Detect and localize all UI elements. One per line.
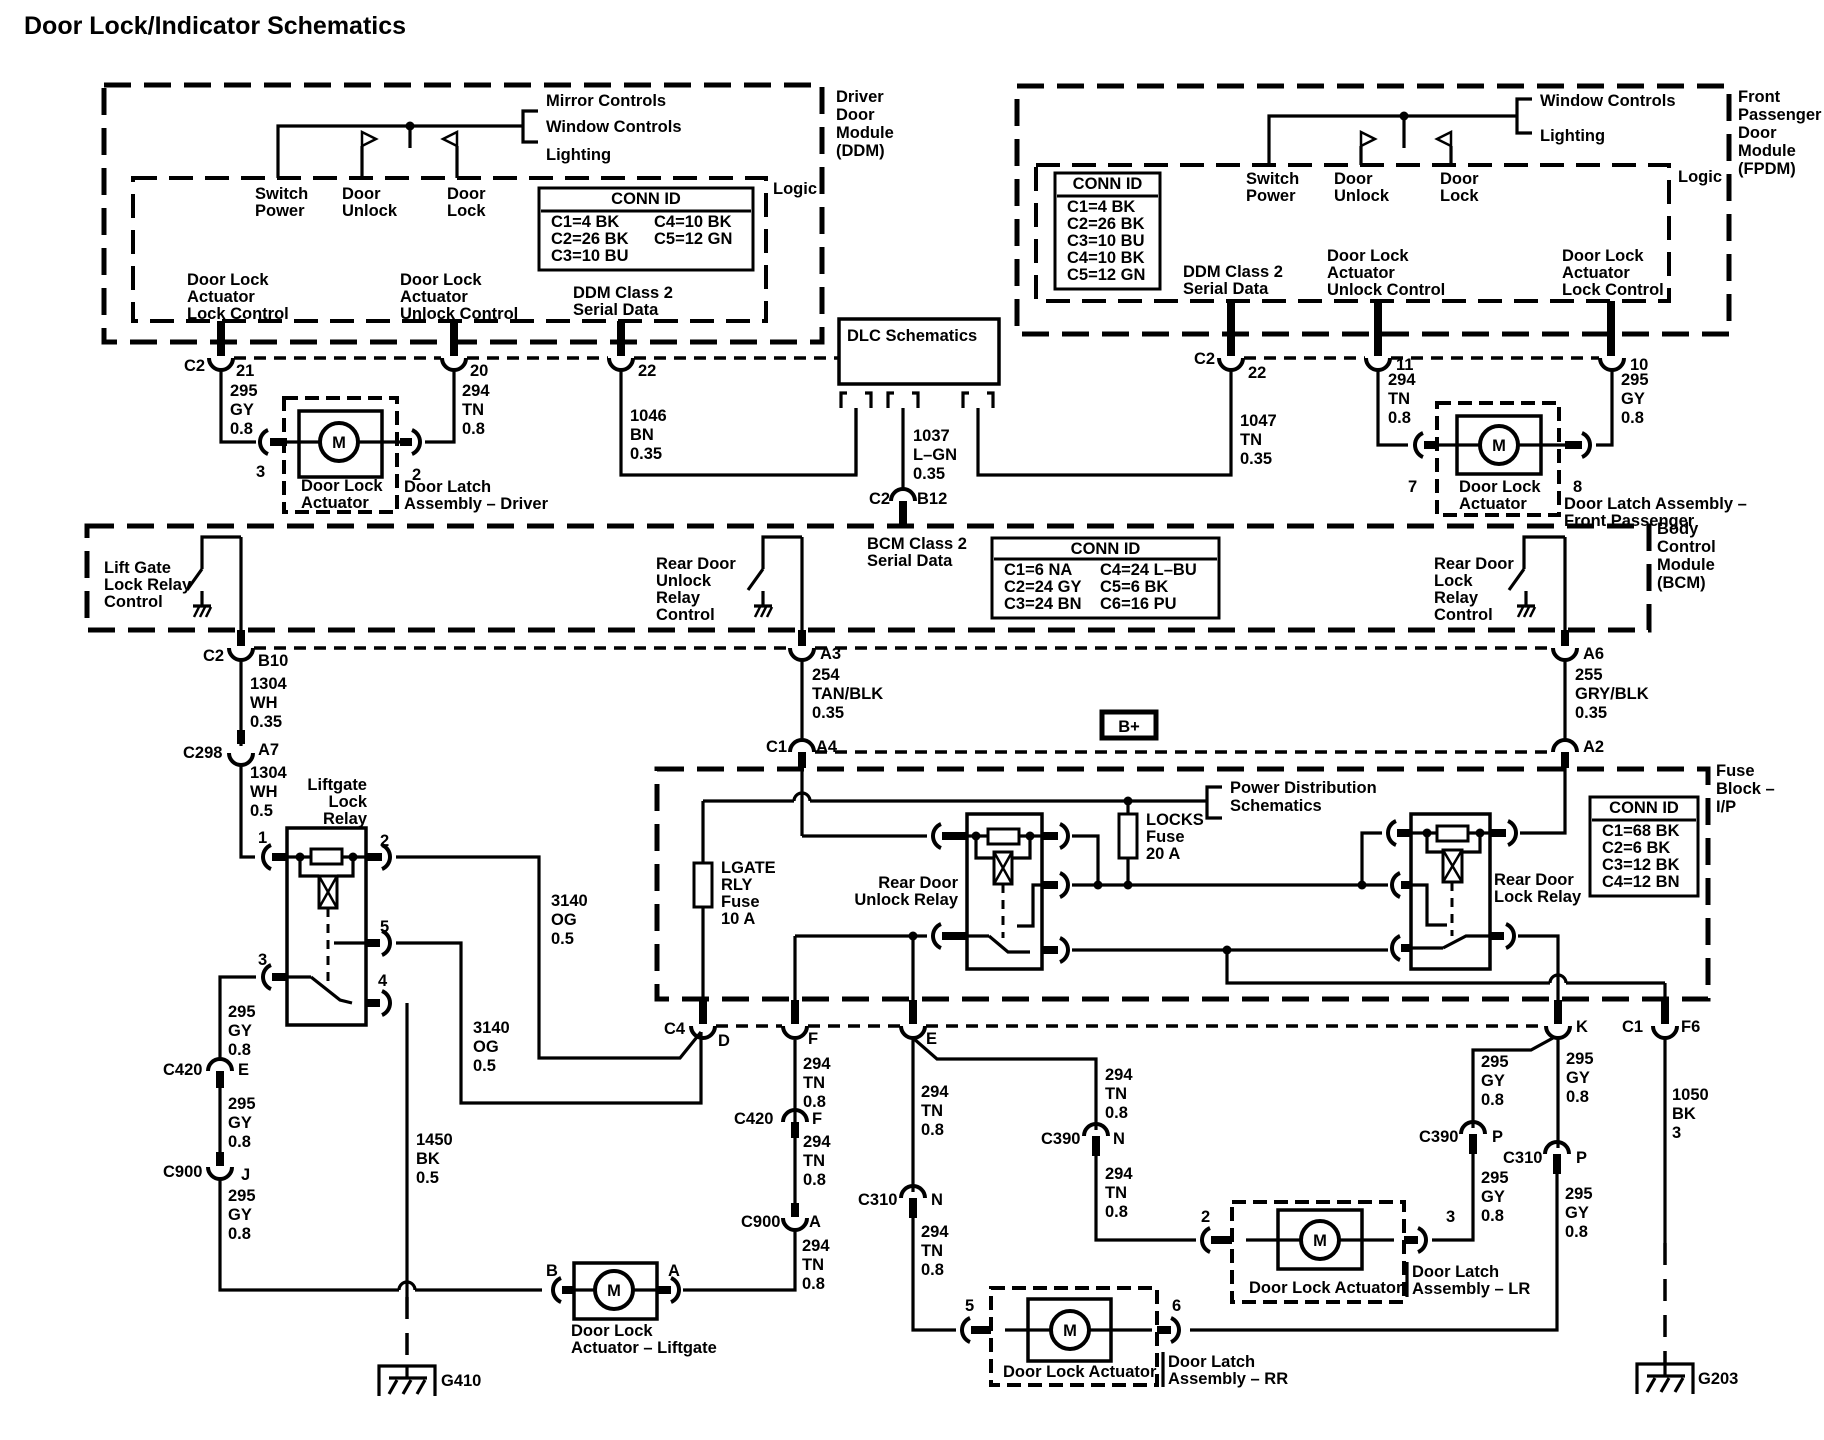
pin 5 connector (RR actuator) [962,1297,991,1342]
svg-text:Door: Door [1738,124,1777,142]
svg-text:E: E [238,1061,249,1079]
svg-text:M: M [332,434,346,452]
connector C4 D [664,1000,730,1050]
svg-text:Serial Data: Serial Data [867,552,953,570]
pin 21 connector arc [209,358,254,380]
wire 294 TN 0.8 from C310 N to RR actuator pin 5 [913,1218,956,1330]
svg-text:294: 294 [803,1133,831,1151]
svg-text:295: 295 [1481,1169,1509,1187]
svg-text:0.8: 0.8 [802,1275,825,1293]
pin B connector (liftgate actuator) [546,1262,574,1302]
wire 1450 BK 0.5 from K1 pin 4 to ground [407,1003,453,1366]
svg-text:Power: Power [255,202,305,220]
svg-text:Lock Relay: Lock Relay [104,576,192,594]
svg-text:BN: BN [630,426,654,444]
svg-text:D: D [718,1032,730,1050]
module U1: Driver Door Module (DDM) dashed box [104,85,894,342]
svg-text:GY: GY [228,1206,252,1224]
CONN ID table (BCM) [992,538,1219,618]
wire 254 TAN/BLK 0.35 from A3 [802,660,883,740]
svg-text:(BCM): (BCM) [1657,574,1706,592]
FPDM pin stubs to connector C2 [1231,301,1611,356]
svg-text:C420: C420 [734,1110,773,1128]
svg-text:TN: TN [1388,390,1410,408]
K3 actuation dashed link [1451,882,1454,936]
svg-text:C2: C2 [203,647,224,665]
CONN ID table (fuse block) [1590,797,1698,896]
svg-text:Door Latch: Door Latch [1412,1263,1499,1281]
svg-text:OG: OG [473,1038,499,1056]
wire 1304 WH 0.5 from A7 to liftgate relay pin 1 [241,764,288,857]
left rear door lock actuator dashed box [1232,1202,1404,1302]
svg-text:0.8: 0.8 [228,1225,251,1243]
svg-text:Lock Control: Lock Control [187,305,289,323]
DDM logic block dashed box [133,178,817,321]
connector A3 [790,645,841,663]
svg-text:0.8: 0.8 [1105,1203,1128,1221]
svg-text:Relay: Relay [1434,589,1479,607]
connector E [901,1000,937,1048]
BCM connector dashed line (C2/C1) [254,646,1552,650]
svg-text:C3=12 BK: C3=12 BK [1602,856,1680,874]
K2 switch blade [967,936,1030,952]
svg-text:Actuator: Actuator [1459,495,1527,513]
wire 295 GY 0.8 from K1 pin 3 [220,977,256,1059]
svg-text:295: 295 [228,1003,256,1021]
svg-text:C298: C298 [183,744,222,762]
svg-text:TN: TN [802,1256,824,1274]
connector C900 A [741,1203,821,1231]
DDM pin function labels [187,271,673,323]
svg-text:A: A [668,1262,680,1280]
svg-text:F: F [812,1110,822,1128]
svg-text:LOCKS: LOCKS [1146,811,1204,829]
svg-text:Lock: Lock [1434,572,1473,590]
K1 pin 1 connector [258,829,287,869]
svg-text:C390: C390 [1419,1128,1458,1146]
svg-text:A7: A7 [258,741,279,759]
connector C1 A4 [766,738,838,768]
svg-text:P: P [1576,1149,1587,1167]
svg-text:C4=24 L–BU: C4=24 L–BU [1100,561,1197,579]
connector C390 N [1041,1124,1125,1156]
svg-text:1450: 1450 [416,1131,453,1149]
fuse block bottom connector dashed line [716,1024,1545,1028]
svg-text:Door Lock: Door Lock [1562,247,1644,265]
svg-text:C2=26 BK: C2=26 BK [551,230,629,248]
FPDM door lock flag [1437,132,1451,165]
svg-text:DDM Class 2: DDM Class 2 [573,284,673,302]
svg-text:C4: C4 [664,1020,686,1038]
svg-text:Assembly – RR: Assembly – RR [1168,1370,1288,1388]
power distribution bracket [1207,779,1377,818]
K2 top-left pin connector [933,824,967,848]
svg-text:294: 294 [1105,1165,1133,1183]
svg-text:Block –: Block – [1716,780,1775,798]
svg-text:22: 22 [1248,364,1266,382]
svg-text:M: M [1492,437,1506,455]
svg-text:Lift Gate: Lift Gate [104,559,171,577]
svg-text:Unlock Relay: Unlock Relay [854,891,958,909]
svg-text:Body: Body [1657,520,1699,538]
svg-text:C310: C310 [858,1191,897,1209]
ground (BCM lift gate switch) [193,591,211,617]
wire 295 GY 0.8 from FPDM pin 10 [1596,370,1649,445]
svg-text:Power: Power [1246,187,1296,205]
svg-text:Door Latch: Door Latch [404,478,491,496]
svg-text:Lighting: Lighting [546,146,611,164]
DDM output bracket + Mirror/Window/Lighting labels [523,92,682,164]
DDM door lock flag [443,132,457,178]
svg-text:C420: C420 [163,1061,202,1079]
wire 294 TN 0.8 from pin 20 [425,370,490,442]
label: Door Latch Assembly - RR [1163,1352,1288,1388]
wire 294 TN 0.8 (F to A) [795,1133,831,1203]
svg-text:0.5: 0.5 [250,802,273,820]
svg-text:Door: Door [836,106,875,124]
svg-text:Fuse: Fuse [721,893,760,911]
K3 bottom-right pin connector [1490,924,1514,948]
svg-text:RLY: RLY [721,876,753,894]
wire 295 GY 0.8 from C390 P to LR actuator pin 3 [1432,1154,1509,1240]
svg-text:Switch: Switch [255,185,308,203]
pin 2 connector (driver actuator) [382,430,421,484]
svg-text:M: M [1063,1322,1077,1340]
wire 1050 BK 3 from F6 to ground [1665,1038,1709,1364]
front passenger door lock actuator dashed box [1437,403,1559,515]
svg-text:295: 295 [228,1187,256,1205]
svg-text:0.8: 0.8 [228,1133,251,1151]
svg-text:B12: B12 [917,490,947,508]
svg-text:Window Controls: Window Controls [546,118,682,136]
DDM switch labels [255,185,486,220]
wire 294 TN 0.8 from F connector [795,1040,831,1122]
svg-text:C4=12 BN: C4=12 BN [1602,873,1680,891]
svg-text:N: N [1113,1130,1125,1148]
svg-text:CONN ID: CONN ID [611,190,681,208]
svg-text:L–GN: L–GN [913,446,957,464]
battery bus inside fuse block [703,799,1207,802]
K2 middle-right pin connector [1042,873,1068,897]
svg-text:Unlock: Unlock [342,202,398,220]
svg-text:GY: GY [1565,1204,1589,1222]
svg-text:0.5: 0.5 [473,1057,496,1075]
svg-text:Relay: Relay [656,589,701,607]
svg-text:0.8: 0.8 [230,420,253,438]
svg-text:0.8: 0.8 [1566,1088,1589,1106]
svg-text:OG: OG [551,911,577,929]
svg-text:22: 22 [638,362,656,380]
label: BCM Class 2 Serial Data [867,535,967,570]
relay K1: Liftgate Lock Relay box [287,776,368,1025]
svg-text:Lock: Lock [328,793,367,811]
wire: K2 top-right pin to LOCKS bus [1072,836,1103,890]
pin 2 connector (LR actuator) [1201,1208,1232,1252]
svg-text:2: 2 [380,832,389,850]
wire: LOCKS bus branch up to K3 coil [1362,833,1382,885]
motor M4: Door Lock Actuator (LR) [1246,1210,1403,1297]
FPDM pin 22 connector arc [1219,358,1266,382]
svg-text:G203: G203 [1698,1370,1738,1388]
svg-text:1050: 1050 [1672,1086,1709,1104]
connector C900 J [163,1163,250,1184]
svg-text:295: 295 [1565,1185,1593,1203]
connector C420 E [163,1059,249,1088]
wire 295 GY 0.8 from C310 P to RR actuator pin 6 [1190,1174,1593,1330]
svg-text:Control: Control [656,606,715,624]
svg-text:Relay: Relay [323,810,368,828]
module: Fuse Block - I/P dashed box [657,762,1775,999]
connector C2 (DDM) dashed line [234,356,838,360]
svg-text:1047: 1047 [1240,412,1277,430]
svg-text:Schematics: Schematics [1230,797,1322,815]
svg-text:C2=6 BK: C2=6 BK [1602,839,1670,857]
connector C2 label (FPDM) [1194,350,1215,368]
label: Door Latch Assembly - Driver [404,478,549,513]
wire 1046 BN 0.35 from pin 22 to DLC [621,370,856,475]
right rear door lock actuator dashed box [991,1288,1157,1385]
wire: K3 bottom-right pin down to K [1518,936,1558,1000]
svg-text:3: 3 [256,463,265,481]
svg-text:Window Controls: Window Controls [1540,92,1676,110]
svg-text:0.8: 0.8 [803,1171,826,1189]
FPDM pin 10 connector arc [1600,356,1648,374]
label: Door Latch Assembly - Front Passenger [1564,495,1747,530]
svg-text:GY: GY [1481,1072,1505,1090]
FPDM pin 11 connector arc [1366,356,1413,374]
svg-text:Door: Door [1334,170,1373,188]
svg-text:Logic: Logic [1678,168,1722,186]
svg-text:0.5: 0.5 [551,930,574,948]
CONN ID table (FPDM) [1055,173,1160,289]
svg-text:C2: C2 [869,490,890,508]
svg-text:B+: B+ [1118,718,1140,736]
wire: DDM switch power feed [278,126,523,178]
pin 3 connector (driver actuator) [256,430,287,481]
wire: common feed to rear door lock relay blade [1227,948,1388,951]
svg-text:Assembly – Driver: Assembly – Driver [404,495,549,513]
svg-text:20: 20 [470,362,488,380]
K1 solenoid X-box [300,857,353,908]
svg-text:Power Distribution: Power Distribution [1230,779,1377,797]
svg-text:0.5: 0.5 [416,1169,439,1187]
hop: F6 feed over K wire [1550,975,1566,983]
svg-text:Door Lock Actuator: Door Lock Actuator [1003,1363,1157,1381]
svg-text:Fuse: Fuse [1146,828,1185,846]
svg-text:BK: BK [416,1150,440,1168]
svg-text:Logic: Logic [773,180,817,198]
svg-text:BCM Class 2: BCM Class 2 [867,535,967,553]
svg-text:0.35: 0.35 [250,713,282,731]
relay K2: Rear Door Unlock Relay box [854,814,1042,969]
svg-text:1046: 1046 [630,407,667,425]
driver door lock actuator dashed box [284,398,397,512]
wire from DLC tab 1 [854,408,857,475]
svg-text:A2: A2 [1583,738,1604,756]
connector C310 P [1503,1142,1587,1174]
svg-text:1304: 1304 [250,675,288,693]
svg-text:4: 4 [378,972,388,990]
K1 pin 5 connector [334,918,390,955]
svg-text:C3=10 BU: C3=10 BU [1067,232,1145,250]
svg-text:Actuator: Actuator [187,288,255,306]
svg-text:Switch: Switch [1246,170,1299,188]
svg-text:Door Lock: Door Lock [1459,478,1541,496]
svg-text:2: 2 [1201,1208,1210,1226]
connector C2 B10 [203,647,288,670]
pin A connector (liftgate actuator) [657,1262,680,1302]
svg-text:0.8: 0.8 [1565,1223,1588,1241]
svg-text:Fuse: Fuse [1716,762,1755,780]
wire: rear door unlock relay control to A3 [800,537,803,646]
svg-text:295: 295 [230,382,258,400]
svg-text:Actuator – Liftgate: Actuator – Liftgate [571,1339,717,1357]
svg-text:294: 294 [802,1237,830,1255]
DDM door unlock flag [362,132,376,178]
svg-text:8: 8 [1573,478,1582,496]
svg-text:Door Lock: Door Lock [187,271,269,289]
svg-text:G410: G410 [441,1372,481,1390]
svg-text:294: 294 [462,382,490,400]
svg-text:Lighting: Lighting [1540,127,1605,145]
svg-text:Door Lock Actuator: Door Lock Actuator [1249,1279,1403,1297]
svg-text:294: 294 [921,1223,949,1241]
svg-text:C5=6 BK: C5=6 BK [1100,578,1168,596]
K3 middle-left pin connector [1392,873,1411,897]
wire: rear doors feed to K2 (F/E branch) [795,932,927,1001]
svg-text:Rear Door: Rear Door [878,874,958,892]
svg-text:GY: GY [1621,390,1645,408]
svg-text:0.8: 0.8 [1481,1091,1504,1109]
pin 6 connector (RR actuator) [1157,1297,1181,1342]
svg-text:Unlock: Unlock [656,572,712,590]
wire 294 TN 0.8 from E down [913,1038,949,1192]
svg-text:5: 5 [380,918,389,936]
svg-text:1: 1 [258,829,267,847]
connector K [1546,1000,1588,1038]
svg-text:294: 294 [803,1055,831,1073]
connector C2 (FPDM) dashed line [1244,356,1599,360]
wire from A4 into fuse block [800,768,803,836]
svg-text:3140: 3140 [551,892,588,910]
svg-text:0.8: 0.8 [1105,1104,1128,1122]
wire: K3 top-right pin to A2 [1520,768,1565,833]
svg-text:295: 295 [228,1095,256,1113]
svg-text:C5=12 GN: C5=12 GN [654,230,732,248]
LOCKS feed bus to rear door lock relay [1072,881,1388,890]
svg-text:C310: C310 [1503,1149,1542,1167]
fuse F2: LOCKS Fuse 20 A [1119,797,1204,890]
svg-text:Door: Door [1440,170,1479,188]
svg-text:294: 294 [1105,1066,1133,1084]
wire 295 GY 0.8 (E to J) [220,1088,256,1166]
svg-text:Mirror Controls: Mirror Controls [546,92,666,110]
svg-text:Control: Control [1434,606,1493,624]
svg-text:C1: C1 [766,738,787,756]
svg-text:WH: WH [250,694,278,712]
junction on DDM feed wire [406,122,415,149]
svg-text:C1=6 NA: C1=6 NA [1004,561,1072,579]
svg-text:TN: TN [1105,1184,1127,1202]
wire 295 GY 0.8 from pin 21 [221,370,258,442]
wire 294 TN 0.8 from FPDM pin 11 [1378,370,1416,445]
DLC connector tab 1 [841,393,871,408]
svg-text:1037: 1037 [913,427,950,445]
svg-text:3: 3 [1446,1208,1455,1226]
wire 295 GY 0.8 from J to liftgate actuator pin B [220,1179,542,1290]
svg-text:Module: Module [1738,142,1796,160]
svg-text:Serial Data: Serial Data [1183,280,1269,298]
svg-text:K: K [1576,1018,1588,1036]
svg-text:C3=24 BN: C3=24 BN [1004,595,1082,613]
svg-text:254: 254 [812,666,840,684]
connector C390 P [1419,1122,1503,1154]
svg-text:Actuator: Actuator [301,494,369,512]
connector C310 N [858,1186,943,1218]
K3 bottom-left pin connector [1392,936,1411,960]
svg-text:Door Lock: Door Lock [400,271,482,289]
K3 fixed contact [1411,885,1447,925]
K1 pin 3 connector [258,951,287,989]
BCM rear door unlock relay control switch [656,537,802,624]
svg-text:C2=26 BK: C2=26 BK [1067,215,1145,233]
K2 actuation dashed link [1002,884,1005,938]
svg-text:J: J [241,1166,250,1184]
K1 pin 4 connector [366,972,390,1015]
motor M3: Door Lock Actuator - Liftgate [566,1263,717,1357]
wire 1047 TN 0.35 from DLC tab 3 to FPDM pin 22 [978,370,1277,475]
svg-text:295: 295 [1566,1050,1594,1068]
svg-text:10 A: 10 A [721,910,755,928]
svg-text:0.35: 0.35 [812,704,844,722]
connector A6 [1553,645,1604,663]
K2 bottom-left pin connector [933,924,967,948]
FPDM switch labels [1246,170,1479,205]
svg-text:Control: Control [104,593,163,611]
svg-text:GRY/BLK: GRY/BLK [1575,685,1649,703]
svg-text:294: 294 [1388,371,1416,389]
connector F [783,1000,818,1048]
svg-text:C6=16 PU: C6=16 PU [1100,595,1177,613]
svg-text:Door Lock/Indicator Schematics: Door Lock/Indicator Schematics [24,12,406,40]
DLC connector tab 3 [963,393,993,408]
svg-text:Lock: Lock [1440,187,1479,205]
svg-text:Door Lock: Door Lock [301,477,383,495]
svg-text:I/P: I/P [1716,798,1736,816]
svg-text:21: 21 [236,362,254,380]
wire 294 TN 0.8 from E to C390 N [913,1038,1133,1130]
pin 8 connector (FP actuator) [1541,433,1590,496]
svg-text:A: A [809,1213,821,1231]
title: Door Lock/Indicator Schematics [24,12,406,40]
K1 pin 2 connector [366,832,390,869]
connector A2 [1553,738,1604,768]
wire 3140 OG 0.5 from K1 pin 2 to C4 D [396,857,701,1058]
hop: 295 GY over 1450 BK [399,1282,415,1290]
K3 top-right pin connector [1490,821,1516,845]
svg-text:M: M [607,1282,621,1300]
wire: lift gate relay control to B10 [239,537,242,646]
motor M5: Door Lock Actuator (RR) [1003,1299,1157,1381]
svg-text:(DDM): (DDM) [836,142,885,160]
svg-text:C2=24 GY: C2=24 GY [1004,578,1082,596]
svg-text:N: N [931,1191,943,1209]
svg-text:Actuator: Actuator [1327,264,1395,282]
svg-text:DLC Schematics: DLC Schematics [847,327,977,345]
svg-text:0.35: 0.35 [1575,704,1607,722]
svg-text:0.35: 0.35 [630,445,662,463]
svg-text:F: F [808,1030,818,1048]
